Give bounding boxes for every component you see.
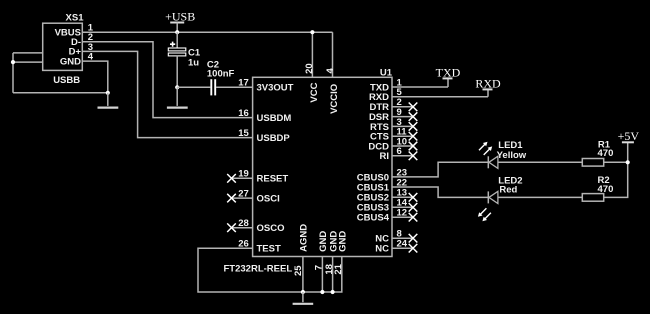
- svg-text:RXD: RXD: [475, 76, 501, 90]
- node AGND junction: [301, 290, 305, 294]
- wire CBUS0 to LED1: [392, 162, 488, 177]
- capacitor C2 wire left: [177, 86, 210, 88]
- wire LED2 to R2: [498, 196, 582, 198]
- svg-text:470: 470: [598, 184, 614, 195]
- node GND junction under XS1: [106, 91, 110, 95]
- capacitor C1 plates: [168, 48, 186, 51]
- svg-text:17: 17: [238, 77, 249, 88]
- resistor R2 body: [582, 194, 603, 202]
- wire CBUS1 to LED2: [392, 187, 488, 197]
- svg-text:16: 16: [238, 108, 249, 119]
- supply +USB symbol: [170, 22, 184, 24]
- wire R1 to +5V: [604, 161, 628, 163]
- svg-text:Yellow: Yellow: [497, 150, 527, 161]
- wire shield to ground: [13, 92, 108, 94]
- svg-text:+5V: +5V: [618, 129, 640, 143]
- svg-text:3V3OUT: 3V3OUT: [257, 82, 294, 93]
- svg-text:VCCIO: VCCIO: [329, 84, 340, 114]
- node GND7 junction: [320, 290, 324, 294]
- svg-text:20: 20: [304, 63, 315, 74]
- svg-text:RESET: RESET: [257, 174, 289, 185]
- node VCC junction: [310, 30, 314, 34]
- IC pin 12 no-connect stub and cross: [392, 216, 413, 218]
- wire R2 to +5V rail: [604, 142, 628, 197]
- LED LED1 emission arrows: [479, 144, 490, 155]
- ground symbol under IC: [302, 292, 304, 302]
- IC pin 9 no-connect stub and cross: [392, 116, 413, 118]
- svg-text:GND: GND: [60, 56, 81, 67]
- supply RXD symbol bar: [483, 88, 493, 90]
- svg-text:100nF: 100nF: [207, 68, 235, 79]
- capacitor C2 plates: [210, 79, 212, 95]
- IC pin 24 no-connect stub and cross: [392, 247, 413, 249]
- ground symbol under C1: [176, 87, 178, 106]
- node C1/C2 junction: [175, 85, 179, 89]
- svg-text:470: 470: [598, 148, 614, 159]
- svg-text:USBDM: USBDM: [257, 113, 292, 124]
- capacitor C1 wire bottom: [176, 56, 178, 87]
- capacitor C2 wire right to pin 17: [216, 86, 253, 88]
- LED LED2 emission arrows: [481, 208, 491, 218]
- svg-text:CBUS4: CBUS4: [357, 213, 390, 224]
- svg-text:OSCO: OSCO: [257, 223, 285, 234]
- wire VCC pin 20 vertical: [311, 32, 313, 77]
- svg-text:FT232RL-REEL: FT232RL-REEL: [224, 264, 293, 275]
- IC pin 19 no-connect stub and cross: [232, 177, 253, 179]
- wire GND net: XS1 pin4 down: [82, 61, 108, 93]
- svg-text:GND: GND: [338, 231, 349, 252]
- IC pin 14 no-connect stub and cross: [392, 206, 413, 208]
- supply TXD symbol bar: [443, 77, 453, 79]
- svg-text:21: 21: [333, 263, 344, 274]
- wire XS1 shield stub upper: [13, 52, 43, 54]
- node shield junction: [11, 60, 15, 64]
- IC pin 6 no-connect stub and cross: [392, 155, 413, 157]
- wire GND pin 18 down: [332, 257, 334, 293]
- wire LED1 to R1: [498, 161, 582, 163]
- IC pin 2 no-connect stub and cross: [392, 106, 413, 108]
- svg-text:Red: Red: [499, 185, 517, 196]
- IC pin 11 no-connect stub and cross: [392, 135, 413, 137]
- svg-text:USBDP: USBDP: [257, 133, 291, 144]
- IC pin 3 no-connect stub and cross: [392, 125, 413, 127]
- capacitor C1 wire top: [176, 32, 178, 48]
- svg-text:15: 15: [238, 128, 249, 139]
- IC pin 27 no-connect stub and cross: [232, 197, 253, 199]
- connector XS1 body: [43, 23, 83, 70]
- wire RXD net: [392, 89, 488, 96]
- svg-text:AGND: AGND: [299, 224, 310, 252]
- wire VCCIO pin 4 vertical: [332, 32, 334, 77]
- IC pin 13 no-connect stub and cross: [392, 196, 413, 198]
- LED LED1 triangle: [489, 156, 498, 168]
- svg-text:TEST: TEST: [257, 244, 281, 255]
- ground symbol under XS1: [107, 93, 109, 106]
- node +5V R1 junction: [626, 160, 630, 164]
- wire AGND pin 25 down: [302, 257, 304, 293]
- LED LED2 triangle: [489, 191, 498, 203]
- wire D- net: XS1 pin2 to USBDM: [82, 42, 252, 118]
- svg-text:VCC: VCC: [309, 82, 320, 102]
- svg-text:4: 4: [325, 68, 336, 74]
- IC pin 8 no-connect stub and cross: [392, 237, 413, 239]
- IC pin 10 no-connect stub and cross: [392, 145, 413, 147]
- resistor R1 body: [582, 159, 603, 167]
- svg-text:25: 25: [293, 265, 304, 276]
- svg-text:RI: RI: [380, 151, 390, 162]
- svg-text:USBB: USBB: [53, 75, 80, 86]
- wire GND pin 7 down: [321, 257, 323, 293]
- wire XS1 shield stub lower: [13, 61, 43, 63]
- wire VBUS net: XS1 pin1 to +USB to VCC/VCCIO: [82, 31, 332, 33]
- wire shield vertical: [12, 53, 14, 93]
- svg-text:1u: 1u: [188, 57, 199, 68]
- svg-text:OSCI: OSCI: [257, 194, 280, 205]
- wire D+ net: XS1 pin3 to USBDP: [82, 51, 252, 137]
- supply +5V symbol bar: [622, 141, 634, 143]
- LED LED2 cathode bar: [487, 191, 489, 203]
- capacitor C1 polarity plus sign: [170, 42, 175, 47]
- node +USB junction: [175, 30, 179, 34]
- svg-text:U1: U1: [380, 68, 393, 79]
- wire TEST to ground rail: [198, 248, 342, 292]
- wire TXD net: [392, 78, 448, 87]
- op IC U1 body FT232RL: [253, 77, 392, 256]
- node GND18 junction: [331, 290, 335, 294]
- svg-text:XS1: XS1: [66, 13, 85, 24]
- svg-text:TXD: TXD: [436, 66, 461, 80]
- svg-text:NC: NC: [375, 244, 389, 255]
- LED LED1 cathode bar: [487, 156, 489, 168]
- IC pin 28 no-connect stub and cross: [232, 227, 253, 229]
